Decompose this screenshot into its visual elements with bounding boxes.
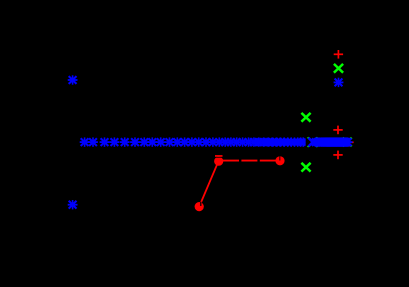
red filled circle middle: [214, 157, 223, 166]
blue X marker in row gap: [309, 138, 318, 147]
blue dense row tail: [311, 137, 353, 146]
red plus data point upper: [333, 126, 342, 135]
blue eigenvalue marker upper-left conjugate: [68, 75, 78, 84]
blue real-axis eigenvalue row: [80, 137, 308, 146]
red filled circle right: [275, 156, 284, 165]
red filled circle lower-left: [195, 202, 204, 211]
red plus under right end of blue row: [344, 138, 353, 147]
seam on right circle: [278, 156, 281, 160]
legend red plus: [334, 50, 343, 59]
green X data point upper: [301, 113, 310, 122]
green X hidden under blue X in row gap: [308, 137, 318, 147]
green X under right end of blue row: [343, 138, 352, 147]
blue eigenvalue marker lower-left conjugate: [68, 200, 78, 209]
legend blue asterisk: [334, 78, 344, 87]
green X data point lower: [301, 163, 310, 172]
legend green X: [334, 64, 343, 73]
black gap before blue X: [306, 136, 309, 147]
red solid line segment: [199, 161, 219, 207]
red dashed line segment: [223, 160, 277, 162]
red cap bar above left circle: [215, 155, 223, 157]
red plus data point lower: [333, 151, 342, 160]
seam on lower-left circle: [200, 202, 201, 206]
black gap under cap bar: [215, 156, 223, 159]
